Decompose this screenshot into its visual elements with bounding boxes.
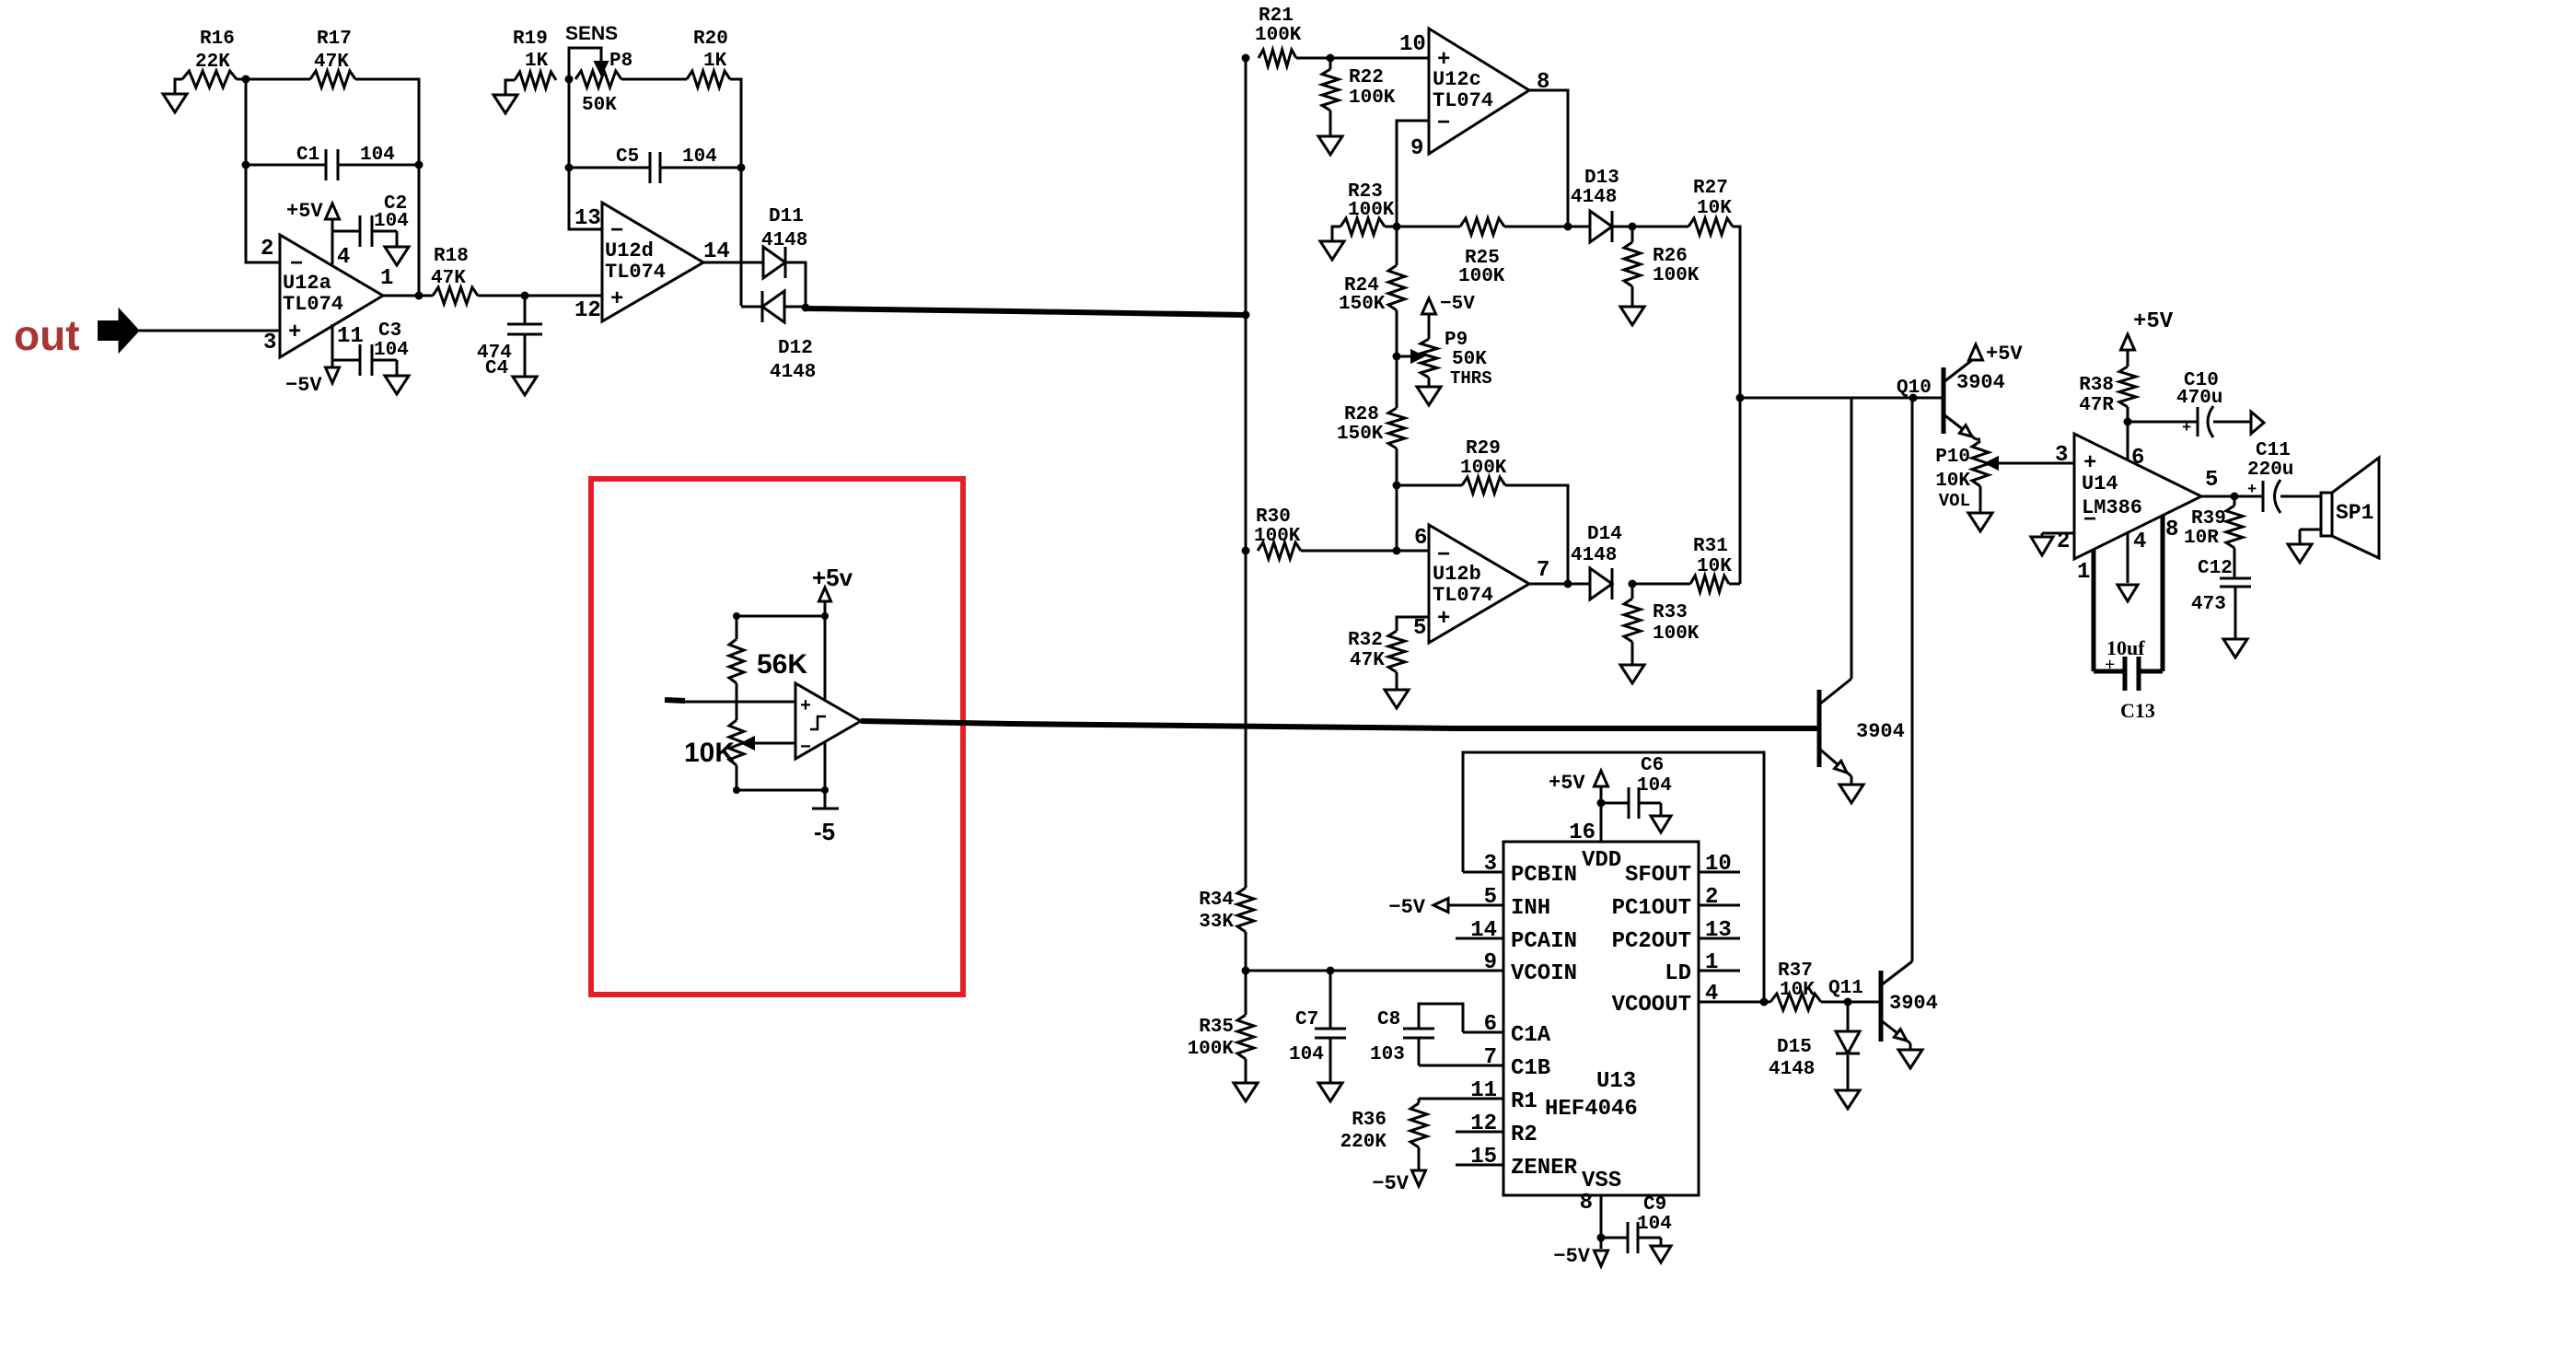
diode D12 xyxy=(741,291,816,383)
pin 3 label U14 xyxy=(2055,443,2068,468)
resistor R26 xyxy=(1624,227,1700,307)
comparator + input wire xyxy=(665,700,795,702)
svg-text:C6: C6 xyxy=(1641,755,1664,776)
node R24/P9 xyxy=(1393,353,1401,361)
svg-text:3: 3 xyxy=(263,331,276,355)
transistor Q10 xyxy=(1897,357,2005,439)
svg-text:−5V: −5V xyxy=(1388,896,1425,919)
capacitor C3 xyxy=(332,320,409,376)
wire U12d inv vertical xyxy=(569,79,602,229)
svg-text:100K: 100K xyxy=(1460,458,1507,479)
wire R29 to U12b out xyxy=(1505,485,1568,583)
wire U12c out xyxy=(1529,90,1568,227)
svg-text:22K: 22K xyxy=(195,52,230,73)
pin 15 stub ZENER xyxy=(1456,1145,1578,1181)
wire U14 out xyxy=(2201,495,2263,498)
svg-text:6: 6 xyxy=(1414,526,1427,551)
svg-text:SFOUT: SFOUT xyxy=(1625,863,1691,888)
ground Q11 xyxy=(1898,1043,1922,1068)
pin 1 label xyxy=(380,266,393,291)
ground R26 xyxy=(1620,307,1644,325)
pin 4 label xyxy=(337,245,350,270)
svg-text:3904: 3904 xyxy=(1856,720,1905,743)
svg-text:R32: R32 xyxy=(1348,630,1383,651)
svg-text:D12: D12 xyxy=(778,338,813,359)
svg-text:4: 4 xyxy=(337,245,350,270)
svg-text:−5V: −5V xyxy=(285,374,322,397)
svg-text:C1: C1 xyxy=(296,145,319,166)
svg-text:C7: C7 xyxy=(1295,1009,1318,1030)
svg-text:C13: C13 xyxy=(2120,699,2155,722)
pin 5 stub INH xyxy=(1447,885,1550,921)
resistor R17 xyxy=(310,29,355,87)
ground R16 xyxy=(163,94,187,112)
svg-text:C3: C3 xyxy=(378,320,401,342)
comparator U15 xyxy=(795,683,861,759)
svg-text:−5V: −5V xyxy=(1553,1245,1590,1268)
resistor R23 xyxy=(1332,181,1395,241)
node R38/C10 xyxy=(2124,418,2132,426)
svg-text:104: 104 xyxy=(682,146,717,168)
svg-text:1: 1 xyxy=(380,266,393,291)
svg-text:THRS: THRS xyxy=(1450,368,1492,389)
+5V supply R38 xyxy=(2121,309,2174,367)
speaker SP1 xyxy=(2321,458,2379,558)
pin 12 label xyxy=(574,298,601,323)
diode D11 xyxy=(761,206,807,278)
top rail xyxy=(737,615,825,618)
svg-text:P10: P10 xyxy=(1935,447,1970,468)
svg-text:33K: 33K xyxy=(1199,912,1234,933)
svg-text:−: − xyxy=(800,738,811,759)
svg-text:220u: 220u xyxy=(2247,460,2293,481)
pin 13 label xyxy=(574,206,601,231)
node pin16/C6 xyxy=(1597,799,1606,808)
resistor R33 xyxy=(1624,584,1700,665)
pin 8 label U14 xyxy=(2165,518,2178,542)
svg-text:+5V: +5V xyxy=(1549,772,1585,795)
resistor R25 xyxy=(1385,218,1568,287)
ground R35 xyxy=(1234,1083,1258,1101)
svg-text:−: − xyxy=(1437,111,1450,136)
svg-text:103: 103 xyxy=(1370,1044,1405,1065)
-5 supply comparator xyxy=(812,790,839,845)
svg-text:14: 14 xyxy=(703,239,730,264)
capacitor C6 xyxy=(1601,755,1672,819)
red annotation box xyxy=(591,479,963,995)
svg-text:10R: 10R xyxy=(2184,528,2219,549)
svg-text:220K: 220K xyxy=(1340,1132,1387,1153)
resistor R31 xyxy=(1632,536,1740,592)
svg-text:R33: R33 xyxy=(1653,602,1688,623)
ground C7 xyxy=(1318,1083,1342,1101)
svg-text:8: 8 xyxy=(2165,518,2178,542)
resistor R34 xyxy=(1199,888,1254,933)
pin 1 thick wire xyxy=(2092,550,2096,671)
wire Q10 base node down to Q11 collector xyxy=(1911,398,1914,961)
pot P8 SENS xyxy=(565,23,632,116)
node R19/P8 xyxy=(565,76,574,84)
resistor R18 xyxy=(431,246,478,304)
op-amp U12c xyxy=(1429,29,1529,154)
wire R34-R35 xyxy=(1245,932,1247,1015)
comparator supply vertical xyxy=(824,616,827,790)
wire U12d out xyxy=(703,262,763,264)
svg-text:100K: 100K xyxy=(1254,526,1301,547)
transistor Q11 xyxy=(1828,961,1938,1043)
VSS label xyxy=(1582,1169,1621,1193)
capacitor C13 10uf xyxy=(2094,636,2163,722)
node output U12a xyxy=(415,292,424,300)
thick comparator output wire xyxy=(861,721,1819,728)
svg-text:104: 104 xyxy=(360,145,395,166)
svg-text:U12c: U12c xyxy=(1433,68,1481,91)
wire P8 to R20 xyxy=(621,78,687,81)
svg-text:TL074: TL074 xyxy=(1433,89,1493,112)
capacitor C4 xyxy=(477,296,542,379)
svg-text:16: 16 xyxy=(1569,820,1595,845)
svg-text:−5V: −5V xyxy=(1372,1172,1409,1195)
ground R19 xyxy=(493,95,517,113)
wire R17 right to output node xyxy=(355,79,419,296)
pin 2 label xyxy=(261,237,273,262)
pin 9 stub VCOIN xyxy=(1246,950,1577,986)
node R30/pin6 xyxy=(1393,547,1401,555)
resistor R21 xyxy=(1255,6,1302,66)
resistor R20 xyxy=(687,29,730,87)
resistor R35 xyxy=(1188,1015,1254,1083)
wire U12a out to R18 xyxy=(383,295,433,297)
pot 10K xyxy=(684,702,744,790)
svg-text:150K: 150K xyxy=(1339,294,1386,315)
svg-text:104: 104 xyxy=(374,340,409,361)
svg-text:100K: 100K xyxy=(1349,87,1396,109)
output arrow C10 xyxy=(2239,412,2264,434)
wire R18 to U12d pin12 xyxy=(478,295,602,297)
capacitor C5 xyxy=(569,146,741,183)
wire U12b pin5 xyxy=(1397,617,1429,631)
node rail right xyxy=(821,612,829,620)
capacitor C1 xyxy=(246,145,419,180)
svg-text:15: 15 xyxy=(1470,1145,1497,1170)
svg-text:10K: 10K xyxy=(1935,471,1970,492)
ground C4 xyxy=(513,377,537,395)
wire R28 to R30 row xyxy=(1396,485,1398,551)
ground R23 xyxy=(1320,241,1344,260)
pin 12 stub R2 xyxy=(1456,1111,1537,1147)
svg-text:10K: 10K xyxy=(1780,980,1815,1001)
capacitor C7 xyxy=(1289,971,1346,1083)
svg-text:VCOOUT: VCOOUT xyxy=(1612,993,1691,1018)
op-amp U12b xyxy=(1429,525,1529,643)
svg-text:47R: 47R xyxy=(2079,395,2114,416)
vertical bus xyxy=(1245,58,1247,888)
svg-text:5: 5 xyxy=(1484,885,1497,910)
node R23/R25 xyxy=(1393,223,1401,231)
svg-text:P9: P9 xyxy=(1445,330,1468,351)
svg-text:7: 7 xyxy=(1484,1045,1497,1070)
wire R16-R17 xyxy=(237,78,310,81)
svg-text:+5v: +5v xyxy=(812,564,853,591)
svg-text:C4: C4 xyxy=(485,358,508,379)
wire R30 to U12b pin6 xyxy=(1301,550,1429,553)
+5v supply comparator xyxy=(812,564,853,616)
svg-text:R16: R16 xyxy=(200,29,235,50)
svg-text:P8: P8 xyxy=(609,51,632,72)
svg-text:C12: C12 xyxy=(2198,558,2233,579)
svg-text:D11: D11 xyxy=(769,206,804,227)
svg-text:PCBIN: PCBIN xyxy=(1511,863,1577,888)
capacitor C8 xyxy=(1370,1004,1463,1065)
svg-text:1K: 1K xyxy=(525,51,549,72)
pin 14 stub PCAIN xyxy=(1456,918,1577,954)
svg-text:R26: R26 xyxy=(1653,246,1688,267)
pin 11 stub R1 xyxy=(1419,1078,1537,1114)
ground R33 xyxy=(1620,665,1644,683)
node U12c out/D13 xyxy=(1564,223,1572,231)
svg-text:14: 14 xyxy=(1470,918,1497,943)
svg-text:ZENER: ZENER xyxy=(1511,1156,1578,1181)
svg-text:50K: 50K xyxy=(1452,349,1487,370)
resistor R39 xyxy=(2184,496,2243,578)
node bus VCOIN xyxy=(1242,967,1250,975)
bottom rail xyxy=(737,789,825,792)
schmitt symbol xyxy=(810,716,826,729)
pin 10 label xyxy=(1399,32,1426,57)
node U14 out xyxy=(2231,493,2239,501)
svg-text:R38: R38 xyxy=(2079,375,2114,396)
pin 8 wire VSS xyxy=(1580,1191,1601,1238)
node D14/R33 xyxy=(1629,580,1637,588)
resistor R27 xyxy=(1688,178,1733,235)
resistor R19 xyxy=(505,29,556,95)
pin 6 label xyxy=(1414,526,1427,551)
svg-text:R22: R22 xyxy=(1349,67,1384,88)
pin 6 wire U14 xyxy=(2127,422,2129,460)
svg-text:100K: 100K xyxy=(1653,623,1700,645)
wire D13 to R27 xyxy=(1612,226,1688,228)
pin 4 stub VCOOUT xyxy=(1612,982,1764,1018)
ground C6 xyxy=(1651,816,1671,832)
svg-text:12: 12 xyxy=(574,298,601,323)
svg-text:5: 5 xyxy=(2205,468,2218,493)
thick wire to comparator bus xyxy=(806,308,1246,315)
svg-text:4148: 4148 xyxy=(770,362,816,383)
ground C3 xyxy=(385,376,409,394)
svg-text:R20: R20 xyxy=(693,29,728,50)
svg-text:VOL: VOL xyxy=(1939,491,1970,511)
wire inverting node vertical xyxy=(246,79,280,262)
svg-text:470u: 470u xyxy=(2176,388,2222,409)
ground D15 xyxy=(1836,1055,1860,1109)
wire R27 down to Q10 base node xyxy=(1733,227,1740,584)
svg-text:HEF4046: HEF4046 xyxy=(1545,1097,1638,1122)
svg-text:R35: R35 xyxy=(1199,1017,1234,1038)
svg-text:1K: 1K xyxy=(703,51,727,72)
pin 7 stub C1B xyxy=(1419,1045,1550,1081)
svg-text:PC2OUT: PC2OUT xyxy=(1612,929,1691,954)
svg-text:104: 104 xyxy=(1289,1044,1324,1065)
svg-text:C8: C8 xyxy=(1377,1009,1400,1030)
ground R22 xyxy=(1318,136,1342,155)
svg-text:4148: 4148 xyxy=(1769,1059,1815,1080)
node C4 xyxy=(521,292,529,300)
resistor R24 xyxy=(1339,227,1405,356)
PCBIN label xyxy=(1511,863,1577,888)
pin 4 wire U14 xyxy=(2118,533,2138,601)
op-amp U12d xyxy=(602,203,703,321)
loop pin3 around top xyxy=(1463,752,1764,1002)
node bus/R21 xyxy=(1242,54,1250,63)
resistor R16 xyxy=(175,29,237,94)
node C1 right xyxy=(415,161,424,169)
svg-text:U14: U14 xyxy=(2082,472,2118,495)
node R28/R29 xyxy=(1393,482,1401,490)
pin 1 label U14 xyxy=(2077,560,2090,585)
svg-text:R34: R34 xyxy=(1199,890,1234,911)
svg-text:2: 2 xyxy=(1705,885,1718,910)
svg-text:VCOIN: VCOIN xyxy=(1511,961,1577,986)
svg-text:100K: 100K xyxy=(1255,25,1302,46)
svg-text:+: + xyxy=(800,696,811,717)
svg-text:−5V: −5V xyxy=(1440,294,1475,315)
pin 3 label xyxy=(263,331,276,355)
resistor R29 xyxy=(1397,438,1507,494)
node C1 left xyxy=(242,161,250,169)
svg-text:9: 9 xyxy=(1410,136,1423,161)
svg-text:473: 473 xyxy=(2191,594,2226,615)
node C7 junction xyxy=(1327,967,1335,975)
svg-text:50K: 50K xyxy=(582,95,617,116)
pin 13 stub PC2OUT xyxy=(1612,918,1740,954)
node rail bottom left xyxy=(733,786,740,794)
pin 14 label xyxy=(703,239,730,264)
svg-text:TL074: TL074 xyxy=(1433,584,1493,607)
svg-text:10: 10 xyxy=(1399,32,1426,57)
svg-text:10K: 10K xyxy=(1697,556,1732,577)
+5V supply C6 xyxy=(1549,771,1608,809)
svg-text:100K: 100K xyxy=(1458,266,1505,287)
svg-text:2: 2 xyxy=(261,237,273,262)
svg-text:13: 13 xyxy=(1705,918,1732,943)
svg-text:C9: C9 xyxy=(1643,1194,1666,1216)
svg-text:104: 104 xyxy=(374,211,409,232)
node rectifier out xyxy=(802,304,810,312)
svg-text:12: 12 xyxy=(1470,1111,1497,1136)
ground P9 xyxy=(1417,387,1441,405)
ground C12 xyxy=(2223,639,2247,658)
node Q10 base node xyxy=(1736,394,1745,402)
transistor 3904 mid xyxy=(1722,398,1905,776)
svg-text:U13: U13 xyxy=(1596,1069,1636,1094)
svg-text:D14: D14 xyxy=(1587,524,1622,545)
svg-text:R37: R37 xyxy=(1778,960,1813,982)
node rail bottom right xyxy=(821,786,829,794)
svg-text:PC1OUT: PC1OUT xyxy=(1612,896,1691,921)
svg-text:U12b: U12b xyxy=(1433,563,1481,586)
wire R20 to vertical xyxy=(730,79,741,306)
svg-text:10K: 10K xyxy=(1697,198,1732,219)
pot P9 THRS xyxy=(1397,294,1492,389)
ground R32 xyxy=(1385,690,1409,708)
svg-text:TL074: TL074 xyxy=(283,293,343,316)
resistor R32 xyxy=(1348,630,1405,690)
diode D15 xyxy=(1769,1002,1860,1080)
svg-text:+5V: +5V xyxy=(1986,343,2023,366)
svg-text:+: + xyxy=(610,287,623,312)
VDD label xyxy=(1582,848,1621,873)
svg-text:R36: R36 xyxy=(1352,1110,1387,1131)
svg-text:47K: 47K xyxy=(431,268,466,289)
node bus/R30 xyxy=(1242,547,1250,555)
svg-text:R30: R30 xyxy=(1256,506,1291,528)
pin 6 stub C1A xyxy=(1463,1012,1551,1048)
svg-text:D13: D13 xyxy=(1584,168,1619,189)
svg-text:4148: 4148 xyxy=(1571,187,1617,208)
wire D11 to node xyxy=(785,262,806,307)
svg-text:−: − xyxy=(2083,508,2096,533)
pin 8 label xyxy=(1537,70,1549,95)
pin 5 label xyxy=(1413,616,1426,641)
+5V supply U12a xyxy=(286,200,340,264)
svg-text:C11: C11 xyxy=(2256,440,2291,461)
svg-text:+: + xyxy=(2182,420,2191,437)
node pin8/C9 xyxy=(1597,1234,1606,1242)
svg-text:PCAIN: PCAIN xyxy=(1511,929,1577,954)
svg-text:SP1: SP1 xyxy=(2336,501,2373,525)
input signal arrow xyxy=(98,308,139,353)
svg-text:8: 8 xyxy=(1580,1191,1593,1216)
svg-text:1: 1 xyxy=(2077,560,2090,585)
node U12b out/D14 xyxy=(1564,580,1572,588)
ground SP1 xyxy=(2288,530,2321,563)
resistor R37 xyxy=(1764,960,1848,1010)
svg-text:13: 13 xyxy=(574,206,601,231)
resistor R30 xyxy=(1254,506,1301,559)
svg-text:104: 104 xyxy=(1637,775,1672,797)
pin 8 thick wire xyxy=(2161,516,2165,671)
pin 9 label xyxy=(1410,136,1423,161)
op-amp U12a xyxy=(280,235,383,357)
svg-text:out: out xyxy=(14,311,80,359)
svg-text:Q10: Q10 xyxy=(1897,378,1932,399)
svg-text:10K: 10K xyxy=(684,738,735,768)
ground C2 xyxy=(385,247,409,265)
pin 11 label xyxy=(337,324,364,349)
ground P10 xyxy=(1968,513,1992,531)
svg-text:5: 5 xyxy=(1413,616,1426,641)
svg-text:6: 6 xyxy=(1484,1012,1497,1037)
svg-text:+5V: +5V xyxy=(286,200,323,223)
wire input to U12a pin3 xyxy=(139,330,280,332)
+5V supply Q10 xyxy=(1969,343,2024,366)
svg-text:VDD: VDD xyxy=(1582,848,1621,873)
svg-text:1: 1 xyxy=(1705,950,1718,975)
node C5 right xyxy=(737,164,746,172)
svg-text:3904: 3904 xyxy=(1889,992,1938,1015)
svg-text:LD: LD xyxy=(1665,961,1691,986)
capacitor C12 xyxy=(2191,558,2251,639)
op-amp U14 LM386 xyxy=(2074,434,2201,559)
-5V supply VSS xyxy=(1553,1238,1607,1268)
svg-text:C1A: C1A xyxy=(1511,1023,1551,1048)
svg-text:10uf: 10uf xyxy=(2106,636,2145,659)
svg-text:4: 4 xyxy=(2133,530,2146,554)
pin 3 stub xyxy=(1463,852,1503,877)
pin16 wire xyxy=(1600,809,1603,842)
svg-text:INH: INH xyxy=(1511,896,1550,921)
wire base node to Q10 xyxy=(1740,397,1944,400)
